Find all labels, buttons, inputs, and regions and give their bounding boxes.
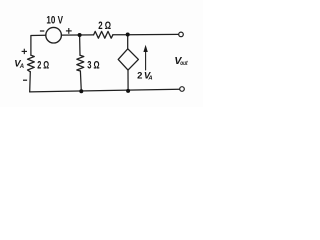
wire left lower lead bbox=[29, 72, 32, 92]
terminal top bbox=[179, 32, 184, 37]
resistor 2 ohm left bbox=[28, 55, 35, 72]
junction node bottom left bbox=[79, 89, 83, 93]
polarity plus of VA bbox=[22, 49, 27, 54]
wire diamond lower lead bbox=[127, 70, 129, 91]
svg-text:A: A bbox=[147, 75, 152, 81]
wire source to node A bbox=[61, 34, 93, 36]
wire bottom bbox=[30, 89, 180, 92]
junction node bottom right bbox=[126, 89, 130, 93]
junction node B top bbox=[126, 33, 130, 37]
svg-text:2: 2 bbox=[137, 71, 142, 82]
voltage source V1 bbox=[46, 27, 62, 43]
arrowhead bbox=[143, 45, 147, 52]
resistor 3 ohm bbox=[77, 55, 84, 71]
svg-text:out: out bbox=[180, 60, 188, 67]
polarity plus of V1 bbox=[66, 28, 72, 34]
dependent source diamond 2VA bbox=[118, 49, 138, 70]
wire top-left segment bbox=[31, 35, 46, 55]
polarity minus of V1 bbox=[40, 30, 44, 32]
current arrow of dependent source bbox=[145, 49, 147, 71]
svg-text:10 V: 10 V bbox=[46, 15, 63, 27]
polarity minus of VA bbox=[23, 79, 27, 81]
wire resistor to node B bbox=[113, 33, 179, 35]
resistor 2 ohm top bbox=[94, 31, 113, 38]
wire 3ohm branch upper lead bbox=[79, 35, 81, 55]
wire diamond upper lead bbox=[127, 35, 129, 50]
svg-text:3 Ω: 3 Ω bbox=[87, 60, 100, 72]
svg-text:2 Ω: 2 Ω bbox=[98, 20, 111, 32]
junction node A top bbox=[78, 33, 82, 37]
wire 3ohm branch lower lead bbox=[79, 71, 82, 91]
svg-text:2 Ω: 2 Ω bbox=[37, 60, 49, 72]
terminal bottom bbox=[180, 87, 185, 92]
svg-text:A: A bbox=[19, 64, 24, 70]
